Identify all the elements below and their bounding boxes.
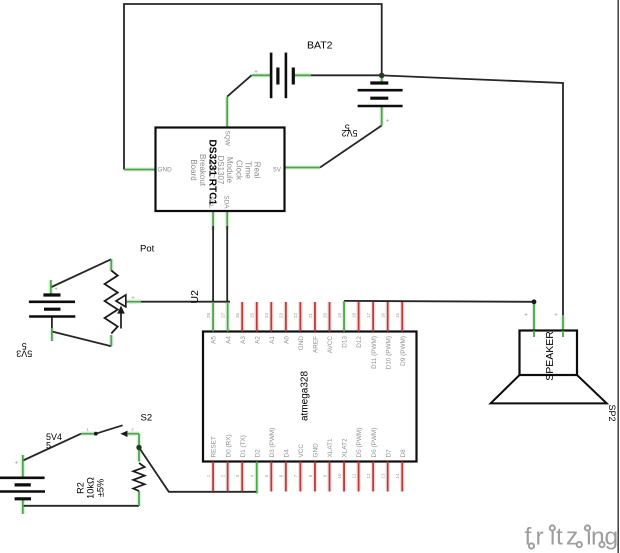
svg-text:SDA: SDA [223, 195, 230, 209]
svg-text:5: 5 [345, 122, 350, 132]
svg-text:5: 5 [46, 441, 51, 451]
svg-text:D0 (RX): D0 (RX) [225, 434, 232, 457]
svg-text:Time: Time [243, 161, 252, 179]
svg-text:19: 19 [337, 313, 342, 319]
svg-text:D7: D7 [385, 449, 392, 458]
svg-text:+: + [524, 312, 528, 319]
svg-text:15: 15 [395, 313, 400, 319]
svg-text:10: 10 [337, 473, 342, 479]
svg-text:23: 23 [279, 313, 284, 319]
svg-text:14: 14 [395, 473, 400, 479]
svg-text:22: 22 [293, 313, 298, 319]
svg-text:RESET: RESET [211, 436, 218, 457]
svg-text:D5 (PWM): D5 (PWM) [356, 428, 363, 458]
svg-text:5: 5 [22, 341, 27, 351]
svg-text:Clock: Clock [234, 160, 243, 181]
svg-text:D8: D8 [400, 449, 407, 458]
svg-text:S2: S2 [141, 412, 153, 423]
svg-text:D13: D13 [342, 336, 349, 348]
svg-text:Breakout: Breakout [198, 154, 207, 187]
svg-text:+: + [131, 295, 135, 302]
svg-text:XLAT2: XLAT2 [342, 438, 349, 458]
svg-text:U2: U2 [189, 290, 201, 304]
svg-text:GND: GND [158, 167, 173, 174]
svg-text:AREF: AREF [313, 336, 320, 353]
svg-text:+: + [386, 118, 390, 125]
svg-text:R2: R2 [76, 482, 86, 494]
svg-text:AVCC: AVCC [327, 336, 334, 354]
svg-text:21: 21 [308, 313, 313, 319]
svg-text:SP2: SP2 [607, 405, 617, 422]
svg-text:5V: 5V [273, 167, 282, 174]
svg-text:28: 28 [206, 313, 211, 319]
svg-text:D11 (PWM): D11 (PWM) [371, 336, 378, 369]
svg-text:+: + [254, 69, 258, 76]
svg-text:SCL: SCL [207, 196, 214, 209]
svg-text:25: 25 [250, 313, 255, 319]
svg-text:26: 26 [235, 313, 240, 319]
svg-text:13: 13 [381, 473, 386, 479]
svg-text:D6 (PWM): D6 (PWM) [371, 428, 378, 458]
svg-text:A0: A0 [283, 336, 290, 344]
svg-text:D1 (TX): D1 (TX) [240, 435, 247, 457]
svg-text:Real: Real [253, 162, 262, 179]
svg-text:Pot: Pot [140, 244, 155, 255]
svg-text:D10 (PWM): D10 (PWM) [385, 336, 392, 369]
svg-text:D2: D2 [254, 449, 261, 458]
svg-text:A4: A4 [225, 336, 232, 344]
svg-text:+: + [54, 286, 58, 293]
svg-text:16: 16 [381, 313, 386, 319]
svg-text:A3: A3 [240, 336, 247, 344]
svg-text:GND: GND [313, 443, 320, 458]
svg-text:XLAT1: XLAT1 [327, 438, 334, 458]
svg-text:18: 18 [351, 313, 356, 319]
svg-text:D9 (PWM): D9 (PWM) [400, 336, 407, 366]
svg-text:+: + [15, 460, 19, 467]
svg-text:A1: A1 [269, 336, 276, 344]
svg-text:SQW: SQW [224, 131, 231, 147]
svg-text:D3 (PWM): D3 (PWM) [269, 428, 276, 458]
svg-text:Module: Module [225, 157, 234, 184]
svg-text:VCC: VCC [298, 444, 305, 458]
svg-text:Board: Board [189, 159, 198, 180]
svg-text:12: 12 [366, 473, 371, 479]
svg-text:±5%: ±5% [95, 479, 105, 497]
svg-text:GND: GND [298, 336, 305, 351]
svg-text:27: 27 [220, 313, 225, 319]
svg-text:D12: D12 [356, 336, 363, 348]
svg-text:10kΩ: 10kΩ [86, 477, 96, 499]
svg-text:BAT2: BAT2 [307, 40, 333, 52]
svg-text:A2: A2 [254, 336, 261, 344]
svg-text:D4: D4 [283, 449, 290, 458]
svg-text:17: 17 [366, 313, 371, 319]
svg-text:11: 11 [351, 473, 356, 478]
svg-text:20: 20 [322, 313, 327, 319]
svg-text:A5: A5 [211, 336, 218, 344]
svg-text:+: + [554, 312, 558, 319]
svg-text:SPEAKER: SPEAKER [544, 331, 556, 381]
svg-text:24: 24 [264, 313, 269, 319]
svg-text:atmega328: atmega328 [300, 371, 311, 421]
